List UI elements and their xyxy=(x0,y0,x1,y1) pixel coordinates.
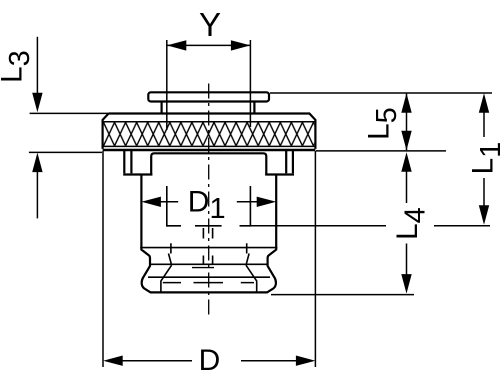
svg-text:D: D xyxy=(199,344,221,377)
dimension L1 xyxy=(479,93,489,225)
socket right edge xyxy=(249,186,251,227)
knurl crosshatch fill xyxy=(104,122,315,145)
right drive lug xyxy=(265,151,294,175)
dimension L4 xyxy=(401,152,411,293)
right clutch notch xyxy=(246,243,257,292)
center slot lines xyxy=(203,228,212,264)
mid extension line (ring bottom, right) xyxy=(316,150,446,152)
knurl band inner lines xyxy=(103,122,314,147)
top extension line (flange top) xyxy=(270,92,492,94)
dimension Y xyxy=(167,40,251,130)
left clutch notch xyxy=(161,243,172,292)
dimension L5 xyxy=(401,93,411,150)
bottom extension line (right) xyxy=(271,294,414,296)
left drive lug xyxy=(123,151,152,175)
neck below flange xyxy=(162,102,255,114)
centerline (vertical chain line) xyxy=(208,79,210,318)
collar mid line segments xyxy=(163,282,254,284)
flange disc at top xyxy=(148,92,269,101)
L1 bottom extension line segments xyxy=(168,225,490,227)
lower collar outline xyxy=(141,245,276,292)
lower-left reference arrow xyxy=(29,152,102,218)
socket bottom segments xyxy=(167,225,251,227)
socket left edge xyxy=(166,186,168,227)
knurled ring outline xyxy=(103,114,316,149)
dimension L3 xyxy=(30,37,109,114)
dimension D1 xyxy=(141,197,276,207)
dimension D xyxy=(103,151,315,367)
body top edge between lugs xyxy=(151,153,266,174)
main body sides xyxy=(141,175,276,246)
shoulder line xyxy=(140,247,277,249)
center small line xyxy=(192,267,214,269)
collar upper line xyxy=(148,276,270,278)
svg-text:Y: Y xyxy=(199,6,221,43)
knurled ring bottom edge xyxy=(103,149,316,151)
groove silhouette line xyxy=(150,263,269,265)
